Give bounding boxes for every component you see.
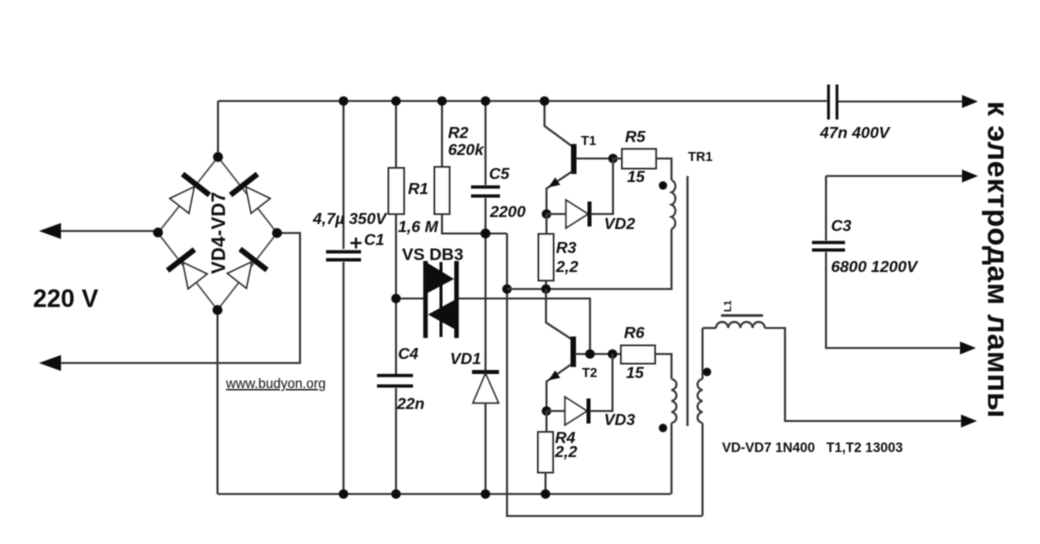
diode VD2 bbox=[547, 213, 567, 215]
node R4 bottom rail bbox=[541, 489, 551, 499]
wire diac to T2 base bbox=[457, 299, 590, 355]
phasing dot winding 2 bbox=[659, 424, 667, 432]
svg-text:VS DB3: VS DB3 bbox=[402, 245, 463, 264]
svg-text:R5: R5 bbox=[625, 129, 647, 146]
node T2 base trigger bbox=[585, 349, 595, 359]
diode VD7 (lower-right) bbox=[223, 249, 266, 291]
arrow output 3 bbox=[960, 342, 976, 355]
node VD1 bottom rail bbox=[481, 489, 491, 499]
svg-text:220 V: 220 V bbox=[33, 285, 99, 313]
transformer TR1 winding 1 bbox=[672, 180, 676, 229]
svg-text:VD4-VD7: VD4-VD7 bbox=[209, 192, 230, 274]
capacitor C1 bbox=[342, 101, 344, 249]
transformer TR1 core bbox=[686, 176, 688, 426]
node C5/R2 junction bbox=[481, 229, 491, 239]
svg-text:www.budyon.org: www.budyon.org bbox=[225, 376, 326, 391]
node T2 base VD3 bbox=[608, 349, 618, 359]
svg-text:2200: 2200 bbox=[489, 204, 526, 221]
resistor R4 bbox=[545, 411, 547, 432]
wire top rail right section bbox=[838, 100, 963, 102]
resistor R5 bbox=[613, 157, 622, 159]
diode VD1 bbox=[472, 370, 499, 374]
svg-text:к электродам лампы: к электродам лампы bbox=[981, 101, 1014, 418]
node R1 top bbox=[391, 96, 401, 106]
svg-text:R2: R2 bbox=[448, 125, 469, 142]
resistor R1 bbox=[395, 101, 397, 168]
phasing dot secondary bbox=[703, 368, 711, 376]
svg-text:22n: 22n bbox=[396, 396, 425, 413]
svg-text:T1: T1 bbox=[581, 133, 596, 148]
node bridge right bbox=[272, 228, 282, 238]
wire output 2 bbox=[826, 175, 962, 177]
transformer TR1 secondary winding bbox=[698, 379, 703, 423]
node C4 bottom rail bbox=[391, 489, 401, 499]
svg-text:T2: T2 bbox=[582, 365, 597, 380]
arrow output 2 bbox=[962, 170, 978, 183]
wire bridge bottom to rail bbox=[216, 310, 218, 494]
node mid junction bbox=[502, 284, 512, 294]
svg-text:R1: R1 bbox=[408, 181, 429, 198]
node T1 base bbox=[608, 154, 618, 164]
diode bridge frame VD4-VD7 bbox=[158, 157, 277, 310]
svg-text:L1: L1 bbox=[723, 300, 734, 312]
phasing dot winding 1 bbox=[659, 181, 667, 189]
svg-text:2,2: 2,2 bbox=[555, 259, 578, 276]
capacitor C3 bbox=[825, 176, 827, 241]
wire top rail left section bbox=[218, 100, 827, 102]
plus sign C1 bbox=[351, 238, 362, 249]
wire mid vertical x507 bbox=[507, 234, 702, 517]
arrow output 1 bbox=[962, 95, 978, 108]
node T2 emitter bbox=[542, 406, 552, 416]
inductor L1 core bar bbox=[721, 314, 763, 317]
node R3 bottom junction bbox=[541, 284, 551, 294]
svg-text:47n 400V: 47n 400V bbox=[819, 125, 891, 142]
resistor R3 bbox=[545, 214, 547, 234]
svg-text:2,2: 2,2 bbox=[554, 444, 577, 461]
arrow output 4 bbox=[961, 415, 977, 428]
svg-text:C5: C5 bbox=[489, 166, 511, 183]
node diac left bbox=[391, 294, 401, 304]
transistor T2 bbox=[546, 289, 572, 340]
node T1 emitter bbox=[542, 209, 552, 219]
diode VD3 bbox=[547, 410, 566, 412]
svg-text:R6: R6 bbox=[624, 325, 645, 342]
svg-text:15: 15 bbox=[627, 169, 646, 186]
transistor T1 bbox=[545, 101, 574, 147]
arrow AC left bottom bbox=[39, 355, 61, 371]
svg-text:4,7µ 350V: 4,7µ 350V bbox=[312, 211, 388, 228]
svg-text:VD3: VD3 bbox=[604, 412, 635, 429]
svg-text:R3: R3 bbox=[556, 240, 577, 257]
svg-text:C3: C3 bbox=[831, 218, 852, 235]
wire AC input bottom run bbox=[57, 233, 300, 363]
diode VD6 (lower-left) bbox=[168, 250, 211, 292]
capacitor 47n on top rail bbox=[827, 85, 830, 120]
svg-text:C1: C1 bbox=[364, 232, 385, 249]
resistor R6 bbox=[621, 346, 655, 364]
node R2 top bbox=[437, 96, 447, 106]
node bridge top bbox=[213, 152, 223, 162]
node C1 bottom bbox=[339, 489, 349, 499]
wire bridge top to rail bbox=[217, 101, 219, 157]
arrow AC left top bbox=[39, 223, 61, 239]
svg-text:1,6 M: 1,6 M bbox=[398, 219, 439, 236]
node bridge bottom bbox=[213, 305, 223, 315]
capacitor C5 bbox=[484, 101, 486, 185]
diac VS DB3 bbox=[426, 261, 457, 338]
transformer TR1 winding 2 bbox=[672, 379, 677, 423]
wire bottom rail bbox=[218, 493, 672, 495]
svg-text:VD1: VD1 bbox=[450, 351, 481, 368]
node C1 top bbox=[339, 96, 349, 106]
wire AC input top bbox=[57, 230, 158, 232]
svg-text:C4: C4 bbox=[398, 346, 419, 363]
node T1 top rail bbox=[540, 96, 550, 106]
svg-text:6800 1200V: 6800 1200V bbox=[831, 259, 919, 276]
node C5 top bbox=[481, 96, 491, 106]
diode VD4 (upper-left) bbox=[166, 174, 209, 216]
inductor L1 bbox=[703, 327, 717, 329]
wire R1 to diac bbox=[396, 297, 424, 299]
capacitor C4 bbox=[377, 374, 413, 377]
svg-text:15: 15 bbox=[626, 365, 645, 382]
diode VD5 (upper-right) bbox=[231, 174, 274, 216]
svg-text:VD-VD7 1N400 T1,T2 13003: VD-VD7 1N400 T1,T2 13003 bbox=[722, 440, 903, 455]
resistor R2 bbox=[441, 101, 443, 167]
svg-text:620k: 620k bbox=[448, 142, 485, 159]
svg-text:TR1: TR1 bbox=[688, 149, 713, 164]
node bridge left bbox=[153, 228, 163, 238]
svg-text:VD2: VD2 bbox=[604, 216, 635, 233]
